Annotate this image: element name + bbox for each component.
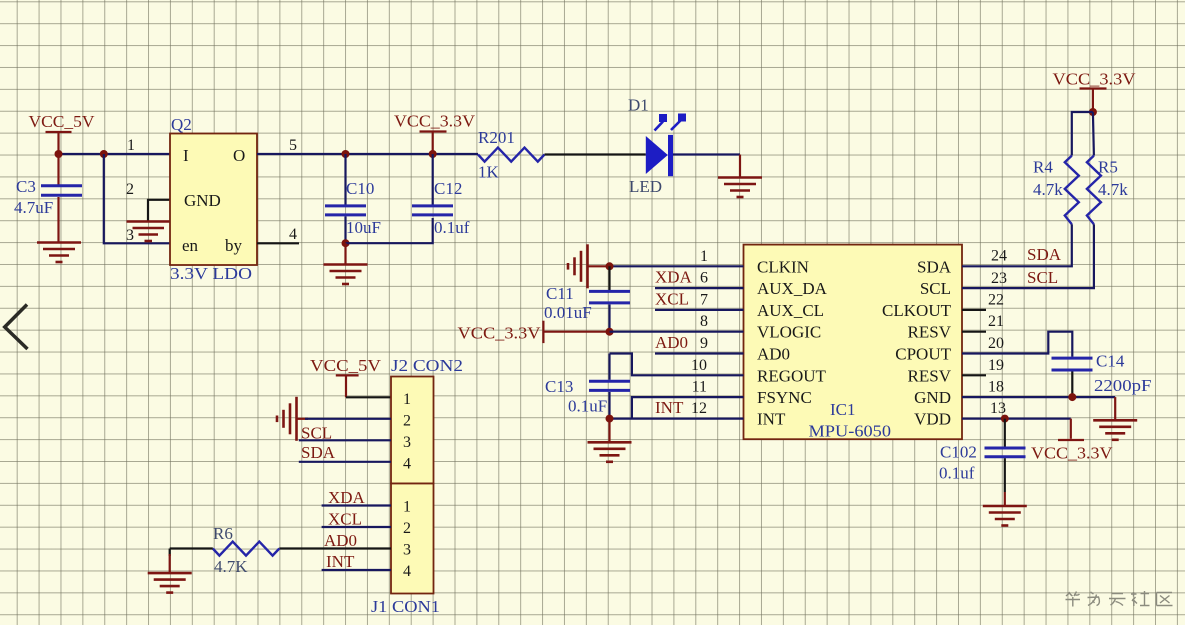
wire REGOUT jog to C13 (610, 354, 744, 376)
net VCC_3.3V power port at C12 (394, 112, 476, 155)
svg-text:4: 4 (403, 563, 411, 580)
svg-text:4.7K: 4.7K (214, 557, 248, 576)
capacitor C12 (412, 154, 470, 237)
svg-text:22: 22 (988, 291, 1004, 308)
svg-text:SDA: SDA (917, 257, 952, 276)
node at C12 (429, 150, 437, 158)
svg-text:VCC_5V: VCC_5V (310, 356, 382, 375)
wire VLOGIC (610, 331, 744, 333)
wire R5 to SCL pin (962, 224, 1094, 288)
wire CLKIN (610, 265, 744, 267)
wire to R4 top (1072, 112, 1093, 156)
svg-text:4: 4 (403, 456, 411, 473)
svg-text:RESV: RESV (908, 366, 952, 385)
svg-text:VDD: VDD (914, 410, 951, 429)
svg-text:CLKIN: CLKIN (757, 257, 809, 276)
svg-text:1K: 1K (478, 163, 500, 182)
svg-text:13: 13 (990, 400, 1006, 417)
wire CPOUT to C14 (962, 332, 1072, 357)
svg-text:en: en (182, 236, 199, 255)
svg-text:C11: C11 (546, 284, 574, 303)
svg-text:10uF: 10uF (346, 218, 381, 237)
wire J2 pin4 (299, 461, 391, 463)
svg-text:1: 1 (700, 248, 708, 265)
svg-text:INT: INT (655, 398, 684, 417)
net VCC_5V power port (29, 112, 96, 154)
svg-text:3: 3 (403, 434, 411, 451)
svg-text:4.7k: 4.7k (1098, 180, 1128, 199)
svg-text:3: 3 (126, 227, 134, 244)
wire R6 left to ground (170, 547, 213, 549)
svg-text:LED: LED (629, 177, 662, 196)
capacitor C10 (325, 154, 381, 243)
svg-text:4: 4 (289, 226, 297, 243)
svg-text:4.7uF: 4.7uF (14, 198, 53, 217)
pin 22 stub (962, 309, 986, 311)
node at C13 bottom (606, 415, 614, 423)
svg-text:C12: C12 (434, 179, 462, 198)
svg-text:XDA: XDA (655, 268, 693, 287)
LED D1 (628, 96, 686, 197)
ground at Q2 pin2 (127, 222, 171, 242)
svg-text:MPU-6050: MPU-6050 (809, 422, 892, 441)
svg-text:18: 18 (988, 379, 1004, 396)
ground at CLKIN (left facing) (568, 244, 610, 288)
svg-text:21: 21 (988, 313, 1004, 330)
capacitor C102 (939, 419, 1026, 492)
svg-text:C3: C3 (16, 177, 36, 196)
svg-text:2: 2 (403, 520, 411, 537)
svg-text:AD0: AD0 (655, 333, 688, 352)
svg-text:INT: INT (326, 552, 355, 571)
svg-text:1: 1 (403, 499, 411, 516)
svg-text:SDA: SDA (301, 443, 336, 462)
svg-text:RESV: RESV (908, 323, 952, 342)
capacitor C11 (544, 266, 630, 331)
svg-text:20: 20 (988, 335, 1004, 352)
svg-text:AUX_CL: AUX_CL (757, 301, 824, 320)
wire J1 pin3 to R6 (279, 547, 391, 549)
svg-text:6: 6 (700, 270, 708, 287)
Q2 pin2 stub to ground (148, 200, 170, 221)
ground right of C14 (1093, 397, 1137, 440)
svg-text:12: 12 (691, 400, 707, 417)
svg-text:AD0: AD0 (757, 345, 790, 364)
op IC1 MPU-6050 (744, 245, 963, 441)
net VCC_5V power port at J2 (310, 356, 382, 397)
ground under C3 (37, 243, 81, 263)
svg-text:I: I (183, 146, 189, 165)
svg-text:7: 7 (700, 291, 708, 308)
svg-text:SDA: SDA (1027, 245, 1062, 264)
svg-text:2: 2 (126, 181, 134, 198)
svg-text:J1 CON1: J1 CON1 (371, 597, 440, 616)
net VCC_3.3V power port top right (1053, 70, 1137, 113)
svg-text:CLKOUT: CLKOUT (882, 301, 952, 320)
wire R201 to LED (545, 153, 646, 155)
wire AD0 (655, 352, 744, 354)
node at VDD / C102 (1001, 415, 1009, 423)
svg-text:D1: D1 (628, 96, 649, 115)
svg-text:VCC_3.3V: VCC_3.3V (1031, 444, 1113, 463)
capacitor C14 (1052, 352, 1152, 398)
svg-text:10: 10 (691, 357, 707, 374)
Q2 pin4 stub (257, 242, 299, 244)
wire FSYNC jog (632, 397, 744, 419)
ground at R6 (148, 573, 192, 593)
capacitor C13 (545, 354, 630, 419)
svg-text:0.1uf: 0.1uf (434, 218, 470, 237)
svg-text:VCC_3.3V: VCC_3.3V (458, 324, 542, 343)
pin 21 stub (962, 331, 986, 333)
ground under C102 (983, 492, 1027, 526)
svg-text:XCL: XCL (655, 289, 689, 308)
svg-text:VCC_3.3V: VCC_3.3V (394, 112, 476, 131)
wire to R5 top (1093, 112, 1094, 156)
node at C10 (342, 150, 350, 158)
svg-text:19: 19 (988, 357, 1004, 374)
svg-text:3: 3 (403, 542, 411, 559)
svg-text:J2 CON2: J2 CON2 (391, 356, 463, 375)
svg-text:5: 5 (289, 137, 297, 154)
svg-text:VCC_3.3V: VCC_3.3V (1053, 70, 1137, 89)
svg-text:SCL: SCL (920, 279, 951, 298)
svg-text:C13: C13 (545, 377, 573, 396)
wire VCC_5V rail to Q2 pin1 (59, 153, 171, 155)
node at C3 (55, 150, 63, 158)
svg-text:XCL: XCL (328, 510, 362, 529)
svg-text:24: 24 (991, 248, 1007, 265)
svg-text:0.01uF: 0.01uF (544, 303, 592, 322)
resistor R5 (1087, 156, 1128, 225)
ground at LED (718, 155, 762, 198)
svg-text:C14: C14 (1096, 352, 1125, 371)
svg-text:IC1: IC1 (830, 400, 856, 419)
svg-text:R201: R201 (478, 128, 515, 147)
svg-text:23: 23 (991, 270, 1007, 287)
svg-text:2200pF: 2200pF (1094, 376, 1152, 395)
svg-text:2: 2 (403, 413, 411, 430)
svg-text:INT: INT (757, 410, 786, 429)
svg-text:C102: C102 (940, 443, 977, 462)
wire XCL (655, 309, 744, 311)
wire J2 pin2 (305, 418, 391, 420)
ground under C10 (324, 243, 368, 284)
wire J1 pin4 (322, 569, 391, 571)
wire XDA (655, 287, 744, 289)
connector J2 CON2 (391, 356, 463, 484)
pin 19 stub (962, 374, 986, 376)
ground at J2 pin2 (left facing) (277, 397, 308, 441)
svg-text:4.7k: 4.7k (1033, 180, 1063, 199)
wire J2 pin3 (299, 439, 391, 441)
svg-text:CPOUT: CPOUT (895, 345, 951, 364)
svg-text:GND: GND (914, 388, 951, 407)
svg-text:SCL: SCL (1027, 268, 1058, 287)
net VCC_3.3V power port at VDD (1031, 419, 1113, 463)
svg-text:R5: R5 (1098, 158, 1118, 177)
wire R4 to SDA pin (962, 224, 1072, 266)
svg-text:VLOGIC: VLOGIC (757, 323, 821, 342)
svg-text:VCC_5V: VCC_5V (29, 112, 96, 131)
wire J2 pin1 (346, 396, 391, 398)
node at R4/R5 top (1089, 108, 1097, 116)
svg-text:GND: GND (184, 191, 221, 210)
svg-text:9: 9 (700, 335, 708, 352)
node at Q2 input branch (100, 150, 108, 158)
svg-text:Q2: Q2 (171, 115, 192, 134)
svg-text:AD0: AD0 (324, 531, 357, 550)
svg-text:FSYNC: FSYNC (757, 388, 812, 407)
svg-text:R4: R4 (1033, 158, 1053, 177)
capacitor C3 (14, 154, 82, 242)
svg-text:11: 11 (692, 379, 707, 396)
svg-text:R6: R6 (213, 524, 233, 543)
wire Q2 output rail (257, 153, 478, 155)
wire J1 pin1 (322, 504, 391, 506)
svg-text:3.3V LDO: 3.3V LDO (170, 264, 252, 283)
svg-text:8: 8 (700, 313, 708, 330)
wire INT (610, 418, 744, 420)
wire VDD (962, 418, 1071, 420)
svg-text:XDA: XDA (328, 488, 366, 507)
resistor R4 (1033, 156, 1079, 225)
connector J1 CON1 (371, 484, 440, 617)
node at C14 bottom (1068, 393, 1076, 401)
wire GND pin to ground (962, 396, 1115, 398)
chevron overlay (5, 305, 28, 350)
node under C10 (342, 239, 350, 247)
wire J1 pin2 (322, 526, 391, 528)
svg-text:O: O (233, 146, 245, 165)
wire C12 bottom to C10 bottom (346, 218, 433, 243)
wire LED cathode to ground (673, 153, 740, 155)
svg-text:0.1uF: 0.1uF (568, 397, 607, 416)
svg-text:0.1uf: 0.1uf (939, 464, 975, 483)
ground under C13 (588, 419, 632, 462)
regulator Q2 (170, 115, 257, 283)
resistor R201 (478, 128, 545, 182)
node at CLKIN / C11 (606, 262, 614, 270)
net VCC_3.3V power port at VLOGIC (458, 321, 610, 343)
watermark 华为云社区 (1066, 591, 1173, 607)
svg-text:by: by (225, 236, 243, 255)
svg-text:1: 1 (403, 391, 411, 408)
node at VLOGIC (606, 328, 614, 336)
svg-text:REGOUT: REGOUT (757, 366, 827, 385)
svg-text:C10: C10 (346, 179, 374, 198)
svg-text:1: 1 (127, 137, 135, 154)
svg-text:AUX_DA: AUX_DA (757, 279, 828, 298)
resistor R6 (213, 524, 279, 576)
wire branch down to Q2 pin3 (104, 154, 170, 243)
